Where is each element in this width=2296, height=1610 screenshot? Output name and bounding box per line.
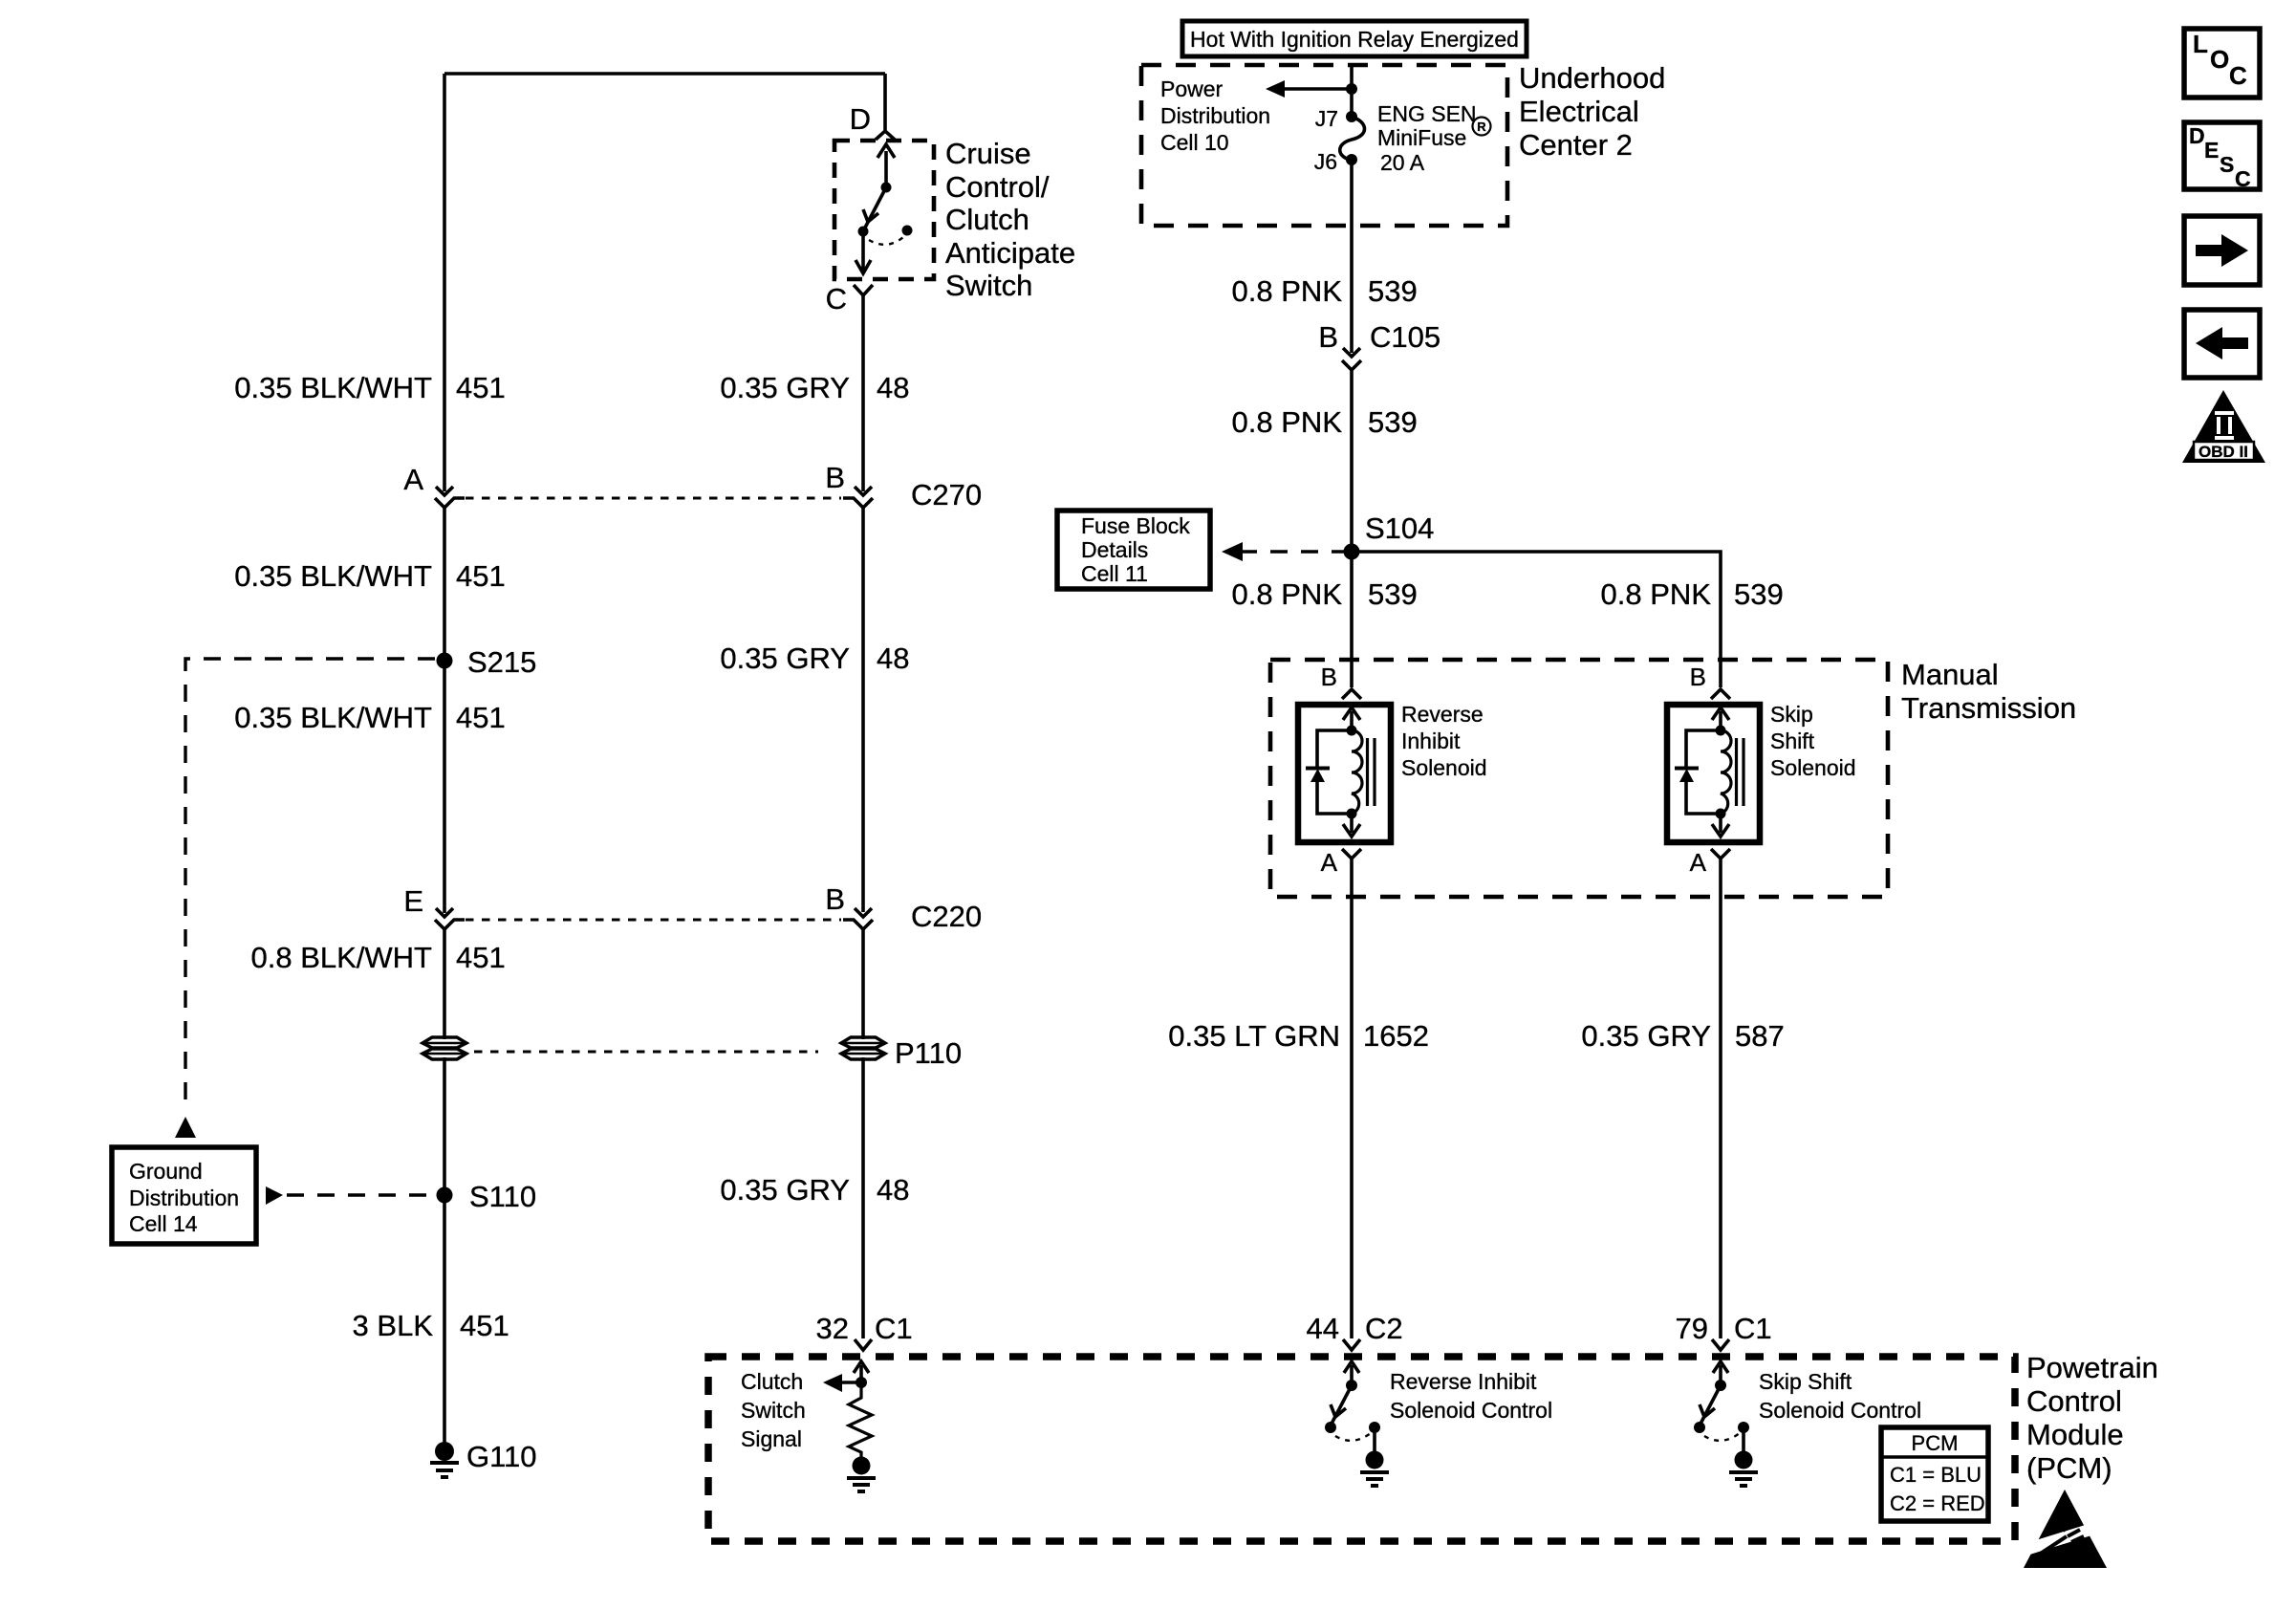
svg-text:0.8 PNK: 0.8 PNK [1232, 274, 1343, 308]
svg-text:B: B [825, 882, 845, 916]
svg-text:C220: C220 [911, 900, 982, 933]
svg-text:Module: Module [2026, 1418, 2124, 1451]
fuse F1 ENG SEN MiniFuse 20A [1340, 111, 1365, 165]
svg-text:0.8 PNK: 0.8 PNK [1601, 577, 1712, 611]
label Underhood Electrical Center 2 [1519, 61, 1665, 162]
icon forward arrow [2184, 216, 2260, 285]
connector A female cup [435, 498, 465, 508]
dashed link to S110 [287, 1193, 432, 1196]
wire switch D drop [883, 74, 887, 130]
svg-text:Inhibit: Inhibit [1401, 729, 1461, 753]
svg-text:Cruise: Cruise [945, 137, 1031, 170]
svg-text:Manual: Manual [1901, 658, 1999, 691]
label 3 BLK 451 [353, 1309, 509, 1342]
svg-text:A: A [403, 463, 423, 496]
svg-text:PCM: PCM [1912, 1431, 1959, 1455]
wire skip solenoid A to PCM 79 [1719, 859, 1722, 1338]
wire pnk fusebox-to-J7 segment [1350, 67, 1354, 117]
svg-text:0.35 BLK/WHT: 0.35 BLK/WHT [234, 701, 432, 734]
label Clutch Switch Signal [741, 1369, 806, 1451]
connector cup at PCM pin 32 [855, 1339, 872, 1350]
svg-text:Anticipate: Anticipate [945, 236, 1075, 270]
grommet left [422, 1037, 466, 1059]
svg-text:E: E [403, 884, 423, 918]
PCM connector legend box [1881, 1427, 1988, 1521]
splice node S215 [437, 653, 453, 669]
svg-text:C105: C105 [1370, 320, 1440, 354]
connector C270 male arrow [855, 487, 872, 495]
svg-text:C270: C270 [911, 478, 982, 511]
svg-text:451: 451 [456, 371, 506, 404]
wire gry column C-to-C270 segment [861, 295, 865, 491]
connector C220 male arrow [855, 908, 872, 917]
label 0.8 PNK 539 third left [1232, 577, 1418, 611]
svg-text:587: 587 [1735, 1019, 1785, 1053]
pin A cup skip solenoid [1711, 849, 1730, 859]
node junction at fuse feed [1346, 83, 1357, 95]
wire pnk solenoid-A-to-PCM-44 segment [1350, 859, 1354, 1338]
svg-text:S110: S110 [469, 1180, 536, 1213]
label 0.35 LT GRN 1652 [1168, 1019, 1429, 1053]
svg-text:C2: C2 [1365, 1312, 1403, 1345]
svg-text:Hot With Ignition Relay Energi: Hot With Ignition Relay Energized [1190, 27, 1519, 52]
svg-text:Ground: Ground [129, 1159, 203, 1184]
svg-text:451: 451 [460, 1309, 509, 1342]
svg-text:Power: Power [1160, 76, 1224, 101]
svg-text:451: 451 [456, 701, 506, 734]
svg-text:451: 451 [456, 559, 506, 593]
arrow from ground distribution box [266, 1186, 283, 1205]
label box Hot With Ignition Relay Energized [1182, 21, 1527, 56]
cruise control clutch anticipate switch dashed box [834, 141, 934, 279]
svg-text:0.35 GRY: 0.35 GRY [720, 371, 850, 404]
svg-text:0.35 BLK/WHT: 0.35 BLK/WHT [234, 371, 432, 404]
svg-text:Clutch: Clutch [945, 203, 1029, 236]
label ENG SEN MiniFuse 20 A [1377, 101, 1491, 175]
icon LOC [2184, 29, 2260, 98]
svg-text:539: 539 [1734, 577, 1784, 611]
svg-text:0.8 PNK: 0.8 PNK [1232, 577, 1343, 611]
svg-text:A: A [1321, 848, 1338, 877]
dashed path from S215 to ground distribution [185, 659, 435, 1105]
svg-text:Fuse Block: Fuse Block [1081, 513, 1190, 538]
connector E female cup [435, 920, 465, 929]
wire gry column C270-to-C220 segment [861, 508, 865, 912]
svg-text:Solenoid: Solenoid [1401, 755, 1487, 780]
svg-text:R: R [1477, 120, 1486, 134]
label box Ground Distribution Cell 14 [112, 1147, 256, 1244]
svg-text:Solenoid Control: Solenoid Control [1390, 1398, 1552, 1423]
label 0.35 BLK/WHT 451 second [234, 559, 505, 593]
svg-text:0.35 GRY: 0.35 GRY [720, 642, 850, 675]
svg-text:MiniFuse: MiniFuse [1377, 125, 1466, 150]
reverse inhibit solenoid control driver [1325, 1361, 1389, 1486]
wire left column A-to-S215-to-E segment [443, 508, 446, 913]
label 0.35 GRY 48 first [720, 371, 909, 404]
svg-text:1652: 1652 [1363, 1019, 1429, 1053]
splice node S110 [437, 1187, 453, 1204]
svg-text:J6: J6 [1314, 149, 1337, 174]
svg-text:S: S [2220, 152, 2234, 177]
svg-text:539: 539 [1368, 405, 1418, 439]
label Skip Shift Solenoid [1770, 702, 1856, 780]
svg-text:C1 = BLU: C1 = BLU [1890, 1463, 1982, 1487]
pin D connector cup [876, 131, 895, 140]
wire pnk C105-to-solenoid-B segment [1350, 370, 1354, 687]
svg-text:Signal: Signal [741, 1426, 802, 1451]
svg-text:Cell 11: Cell 11 [1081, 561, 1148, 586]
svg-text:A: A [1690, 848, 1707, 877]
svg-text:Solenoid Control: Solenoid Control [1759, 1398, 1921, 1423]
icon OBD II triangle [2182, 390, 2265, 463]
pin B cup reverse solenoid [1342, 689, 1361, 699]
svg-text:Cell 14: Cell 14 [129, 1211, 198, 1236]
svg-text:Switch: Switch [945, 269, 1032, 302]
svg-text:B: B [1690, 663, 1706, 691]
svg-text:C: C [826, 282, 847, 315]
label Power Distribution Cell 10 [1160, 76, 1270, 155]
svg-text:C1: C1 [875, 1312, 913, 1345]
dashed link P110 [474, 1051, 818, 1054]
svg-text:Reverse Inhibit: Reverse Inhibit [1390, 1369, 1537, 1394]
solenoid L2 skip shift [1667, 705, 1760, 842]
label 0.8 PNK 539 first [1232, 274, 1418, 308]
label 0.8 PNK 539 right branch [1601, 577, 1784, 611]
label 0.8 BLK/WHT 451 [251, 941, 506, 974]
label 0.35 GRY 48 third [720, 1173, 909, 1207]
svg-text:0.35 GRY: 0.35 GRY [1581, 1019, 1711, 1053]
svg-text:Control: Control [2026, 1384, 2122, 1418]
skip shift solenoid control driver [1694, 1361, 1758, 1486]
label Reverse Inhibit Solenoid Control [1390, 1369, 1552, 1423]
svg-text:539: 539 [1368, 274, 1418, 308]
svg-text:OBD II: OBD II [2199, 443, 2248, 461]
underhood electrical center 2 dashed box [1141, 65, 1507, 226]
connector A male arrow [436, 487, 453, 495]
svg-text:C: C [2235, 166, 2251, 191]
svg-text:L: L [2193, 30, 2208, 58]
svg-text:D: D [850, 102, 871, 136]
solenoid L1 reverse inhibit [1298, 705, 1391, 842]
svg-text:C1: C1 [1734, 1312, 1772, 1345]
svg-text:48: 48 [877, 1173, 909, 1207]
arrow up to S215 path [175, 1117, 196, 1138]
svg-text:Underhood: Underhood [1519, 61, 1665, 95]
label 0.35 BLK/WHT 451 first [234, 371, 505, 404]
svg-text:Control/: Control/ [945, 170, 1050, 204]
arrow to power distribution [1266, 80, 1352, 98]
svg-text:48: 48 [877, 642, 909, 675]
pin C connector cup [854, 285, 873, 295]
icon back arrow [2184, 310, 2260, 378]
svg-text:0.35 GRY: 0.35 GRY [720, 1173, 850, 1207]
svg-text:Skip Shift: Skip Shift [1759, 1369, 1852, 1394]
svg-text:Shift: Shift [1770, 729, 1815, 753]
svg-text:Skip: Skip [1770, 702, 1813, 727]
svg-text:C: C [2229, 61, 2247, 90]
svg-text:44: 44 [1307, 1312, 1339, 1345]
svg-text:B: B [1318, 320, 1338, 354]
svg-text:B: B [1321, 663, 1337, 691]
label Reverse Inhibit Solenoid [1401, 702, 1487, 780]
wire left column grommet-to-G110 segment [443, 1057, 446, 1444]
svg-text:Center 2: Center 2 [1519, 128, 1633, 162]
ESD sensitivity symbol [2024, 1490, 2107, 1568]
svg-text:Powetrain: Powetrain [2026, 1351, 2158, 1384]
powertrain control module dashed box [708, 1357, 2015, 1541]
pin B cup skip solenoid [1711, 689, 1730, 699]
svg-text:B: B [825, 461, 845, 494]
connector E male arrow [436, 908, 453, 917]
dashed link C270 [466, 497, 841, 500]
svg-text:451: 451 [456, 941, 506, 974]
ground G110 [430, 1442, 459, 1477]
dashed link C220 [466, 919, 841, 922]
svg-text:0.35 BLK/WHT: 0.35 BLK/WHT [234, 559, 432, 593]
svg-text:Clutch: Clutch [741, 1369, 803, 1394]
svg-text:P110: P110 [895, 1036, 962, 1070]
svg-text:Solenoid: Solenoid [1770, 755, 1856, 780]
svg-text:D: D [2189, 123, 2205, 148]
connector C270 female cup [843, 498, 873, 508]
label 0.35 GRY 48 second [720, 642, 909, 675]
label 0.35 BLK/WHT 451 third [234, 701, 505, 734]
svg-text:S215: S215 [467, 645, 536, 679]
label Skip Shift Solenoid Control [1759, 1369, 1921, 1423]
connector cup at PCM pin 44 [1343, 1339, 1360, 1350]
label Powetrain Control Module (PCM) [2026, 1351, 2158, 1485]
manual transmission dashed box [1270, 660, 1888, 897]
wire gry column C220-to-grommet segment [861, 928, 865, 1039]
svg-text:3 BLK: 3 BLK [353, 1309, 434, 1342]
svg-text:Details: Details [1081, 537, 1148, 562]
svg-text:32: 32 [816, 1312, 849, 1345]
svg-text:Transmission: Transmission [1901, 691, 2076, 725]
svg-text:0.8 BLK/WHT: 0.8 BLK/WHT [251, 941, 433, 974]
label Cruise Control Clutch Anticipate Switch [945, 137, 1075, 302]
svg-text:48: 48 [877, 371, 909, 404]
svg-text:Cell 10: Cell 10 [1160, 130, 1229, 155]
wire gry column grommet-to-PCM segment [861, 1057, 865, 1338]
svg-text:0.35 LT GRN: 0.35 LT GRN [1168, 1019, 1340, 1053]
dashed arrow to fuse block details [1222, 542, 1344, 561]
svg-text:O: O [2210, 45, 2229, 74]
clutch switch signal circuit [823, 1361, 876, 1491]
connector cup at PCM pin 79 [1712, 1339, 1729, 1350]
wire left column upper segment [443, 74, 446, 491]
wire left column E-to-grommet segment [443, 928, 446, 1039]
label box Fuse Block Details Cell 11 [1057, 511, 1210, 589]
wire top horizontal from left column to switch D [444, 72, 885, 76]
svg-text:E: E [2204, 138, 2219, 163]
svg-text:Reverse: Reverse [1401, 702, 1484, 727]
svg-text:C2 = RED: C2 = RED [1890, 1491, 1985, 1515]
switch SW1 cruise clutch anticipate [856, 144, 913, 273]
wire branch S104 to skip shift solenoid B [1352, 552, 1721, 687]
svg-text:G110: G110 [466, 1440, 537, 1473]
grommet P110 right [841, 1037, 885, 1059]
svg-text:20 A: 20 A [1380, 150, 1425, 175]
label 0.35 GRY 587 [1581, 1019, 1784, 1053]
label Manual Transmission [1901, 658, 2076, 725]
svg-text:Electrical: Electrical [1519, 95, 1639, 128]
wire pnk J6-to-C105 segment [1350, 160, 1354, 353]
svg-text:J7: J7 [1315, 106, 1338, 131]
pin A cup reverse solenoid [1342, 849, 1361, 859]
svg-text:Switch: Switch [741, 1398, 806, 1423]
svg-text:Distribution: Distribution [129, 1186, 239, 1210]
svg-text:79: 79 [1676, 1312, 1708, 1345]
connector C105 [1342, 348, 1361, 370]
icon DESC [2184, 122, 2260, 191]
label 0.8 PNK 539 second [1232, 405, 1418, 439]
splice node S104 [1344, 544, 1360, 560]
svg-text:S104: S104 [1365, 511, 1434, 545]
connector C220 female cup [843, 920, 873, 929]
svg-text:539: 539 [1368, 577, 1418, 611]
svg-text:0.8 PNK: 0.8 PNK [1232, 405, 1343, 439]
svg-text:(PCM): (PCM) [2026, 1451, 2112, 1485]
svg-text:ENG SEN: ENG SEN [1377, 101, 1477, 126]
svg-text:Distribution: Distribution [1160, 103, 1270, 128]
